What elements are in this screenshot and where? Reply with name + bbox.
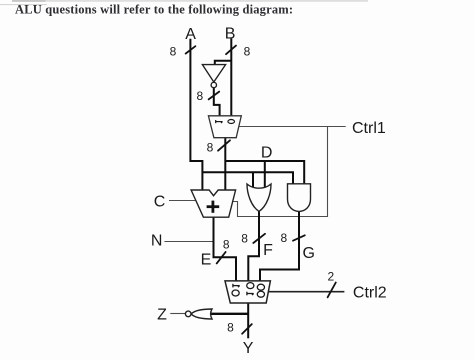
svg-text:Ctrl2: Ctrl2 [353,285,387,302]
svg-text:N: N [151,232,163,249]
svg-text:2: 2 [328,270,335,284]
svg-text:8: 8 [227,321,234,335]
svg-text:B: B [225,26,236,43]
svg-text:Z: Z [157,306,167,323]
svg-text:G: G [302,245,314,262]
svg-text:8: 8 [223,238,230,252]
svg-text:D: D [261,144,273,161]
svg-text:A: A [185,26,196,43]
svg-text:E: E [201,252,212,269]
svg-text:8: 8 [244,44,251,58]
svg-text:8: 8 [207,141,214,155]
svg-text:ALU questions will refer to th: ALU questions will refer to the followin… [15,2,293,16]
svg-text:Ctrl1: Ctrl1 [352,120,386,137]
svg-text:Y: Y [243,340,254,357]
svg-text:8: 8 [196,89,203,103]
svg-text:8: 8 [280,231,287,245]
svg-text:8: 8 [241,232,248,246]
svg-text:C: C [154,194,166,211]
svg-text:F: F [263,242,273,259]
svg-text:8: 8 [170,44,177,58]
